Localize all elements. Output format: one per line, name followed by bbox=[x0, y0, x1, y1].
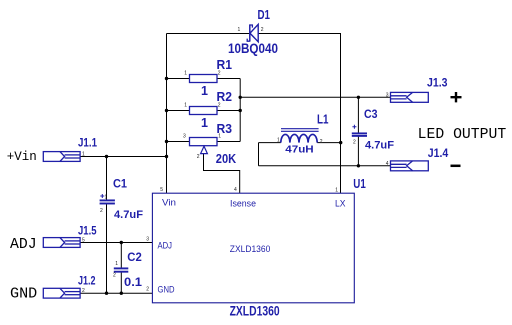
svg-text:2: 2 bbox=[146, 287, 149, 293]
potentiometer R3 bbox=[190, 138, 218, 146]
wire LED- row to J1.4 bbox=[259, 165, 391, 167]
svg-text:4: 4 bbox=[386, 161, 389, 167]
svg-text:4: 4 bbox=[234, 187, 237, 193]
junction C2 GND bbox=[120, 292, 123, 295]
wire resistor right vertical bbox=[239, 79, 241, 142]
wire +Vin row bbox=[80, 156, 167, 158]
svg-text:+Vin: +Vin bbox=[7, 150, 37, 164]
junction left rail +Vin bbox=[165, 155, 168, 158]
svg-text:2: 2 bbox=[100, 208, 103, 214]
wire R1 left bbox=[167, 78, 190, 80]
svg-text:ADJ: ADJ bbox=[10, 237, 37, 253]
connector J1.5 bbox=[43, 238, 80, 248]
wire top left (D1 cathode to left rail) bbox=[167, 33, 250, 35]
connector J1.1 bbox=[43, 152, 80, 162]
junction C1 +Vin bbox=[105, 155, 108, 158]
svg-text:1: 1 bbox=[184, 103, 187, 109]
svg-text:GND: GND bbox=[10, 287, 37, 303]
svg-text:4.7uF: 4.7uF bbox=[365, 140, 394, 152]
R3 wiper arrow bbox=[201, 146, 208, 153]
svg-text:LX: LX bbox=[335, 198, 346, 208]
wire C2 bottom bbox=[120, 273, 122, 294]
inductor L1 bbox=[281, 129, 319, 143]
svg-text:ADJ: ADJ bbox=[158, 240, 173, 250]
wire R1 right bbox=[217, 78, 240, 80]
svg-text:J1.3: J1.3 bbox=[427, 78, 448, 90]
wire R3 right bbox=[217, 141, 240, 143]
svg-text:U1: U1 bbox=[353, 177, 366, 191]
svg-text:1: 1 bbox=[277, 138, 280, 144]
junction C3 top bbox=[357, 96, 360, 99]
svg-text:3: 3 bbox=[386, 92, 389, 98]
svg-text:J1.2: J1.2 bbox=[78, 276, 96, 288]
svg-text:1: 1 bbox=[82, 151, 85, 157]
svg-text:1: 1 bbox=[218, 134, 221, 140]
svg-text:5: 5 bbox=[160, 187, 163, 193]
svg-text:1: 1 bbox=[335, 188, 338, 194]
svg-text:1: 1 bbox=[201, 116, 208, 130]
wire R3 left bbox=[167, 141, 190, 143]
svg-text:Isense: Isense bbox=[230, 198, 256, 208]
plus output symbol bbox=[451, 92, 462, 102]
svg-text:ZXLD1360: ZXLD1360 bbox=[230, 304, 280, 319]
svg-text:C2: C2 bbox=[127, 250, 142, 264]
svg-text:2: 2 bbox=[218, 103, 221, 109]
svg-text:LED OUTPUT: LED OUTPUT bbox=[418, 127, 507, 143]
svg-text:2: 2 bbox=[197, 154, 200, 160]
svg-text:J1.4: J1.4 bbox=[428, 148, 449, 160]
svg-text:C3: C3 bbox=[364, 107, 378, 121]
connector J1.3 bbox=[391, 92, 429, 102]
wire C1 bottom to GND row bbox=[106, 204, 108, 293]
wire C3 bottom bbox=[357, 137, 359, 166]
junction LED+ branch bbox=[239, 96, 242, 99]
wire R2 right bbox=[217, 110, 240, 112]
junction R2 right bbox=[239, 109, 242, 112]
svg-text:1: 1 bbox=[115, 261, 118, 267]
capacitor C3 bbox=[352, 125, 367, 136]
svg-text:ZXLD1360: ZXLD1360 bbox=[230, 244, 270, 255]
svg-text:J1.1: J1.1 bbox=[78, 138, 98, 150]
junction C2 ADJ bbox=[120, 241, 123, 244]
op IC U1 box bbox=[152, 193, 354, 303]
resistor R1 bbox=[190, 75, 218, 83]
svg-text:2: 2 bbox=[261, 27, 264, 33]
svg-text:1: 1 bbox=[105, 195, 108, 201]
svg-text:1: 1 bbox=[184, 71, 187, 77]
svg-text:3: 3 bbox=[183, 134, 186, 140]
wire L1 left step down bbox=[258, 143, 260, 166]
svg-text:0.1: 0.1 bbox=[124, 277, 143, 289]
wire GND row bbox=[80, 292, 152, 294]
svg-text:10BQ040: 10BQ040 bbox=[228, 40, 278, 56]
wire R3 wiper to Isense pin bbox=[204, 154, 240, 193]
svg-text:4.7uF: 4.7uF bbox=[114, 209, 143, 221]
svg-text:1: 1 bbox=[238, 27, 241, 33]
wire L1 right pin to LX bbox=[317, 142, 341, 144]
wire L1 left pin bbox=[259, 142, 281, 144]
junction C3 bottom bbox=[357, 164, 360, 167]
svg-text:3: 3 bbox=[146, 237, 149, 243]
minus output symbol bbox=[451, 165, 461, 168]
wire R2 left bbox=[167, 110, 190, 112]
svg-text:20K: 20K bbox=[216, 152, 236, 166]
junction L1 LX bbox=[339, 141, 342, 144]
connector J1.4 bbox=[391, 161, 429, 171]
capacitor C2 bbox=[114, 268, 129, 271]
wire ADJ row bbox=[80, 242, 152, 244]
svg-text:2: 2 bbox=[113, 273, 116, 279]
svg-text:L1: L1 bbox=[317, 112, 329, 127]
svg-text:Vin: Vin bbox=[162, 198, 176, 208]
svg-text:J1.5: J1.5 bbox=[78, 226, 97, 238]
svg-text:1: 1 bbox=[201, 84, 208, 98]
svg-text:2: 2 bbox=[353, 140, 356, 146]
diode D1 bbox=[247, 24, 258, 41]
svg-text:2: 2 bbox=[218, 71, 221, 77]
wire LED+ row to J1.3 bbox=[240, 96, 390, 98]
wire top right (D1 anode to LX rail) bbox=[258, 33, 341, 35]
svg-text:2: 2 bbox=[320, 139, 323, 145]
wire left vertical rail Vin bbox=[166, 34, 168, 194]
wire C1 top bbox=[106, 157, 108, 200]
wire LX vertical rail bbox=[340, 34, 342, 194]
svg-text:47uH: 47uH bbox=[285, 143, 313, 155]
junction C1 GND bbox=[105, 292, 108, 295]
connector J1.2 bbox=[43, 288, 80, 298]
junction left rail R3 bbox=[165, 140, 168, 143]
svg-text:D1: D1 bbox=[258, 7, 271, 22]
junction left rail R1 bbox=[165, 77, 168, 80]
svg-text:GND: GND bbox=[158, 285, 175, 295]
resistor R2 bbox=[190, 107, 218, 115]
junction left rail R2 bbox=[165, 109, 168, 112]
capacitor C1 bbox=[100, 194, 115, 204]
wire C3 top bbox=[357, 97, 359, 132]
svg-text:C1: C1 bbox=[113, 177, 127, 191]
svg-text:2: 2 bbox=[82, 288, 85, 294]
svg-text:5: 5 bbox=[82, 237, 85, 243]
wire C2 top bbox=[120, 243, 122, 268]
